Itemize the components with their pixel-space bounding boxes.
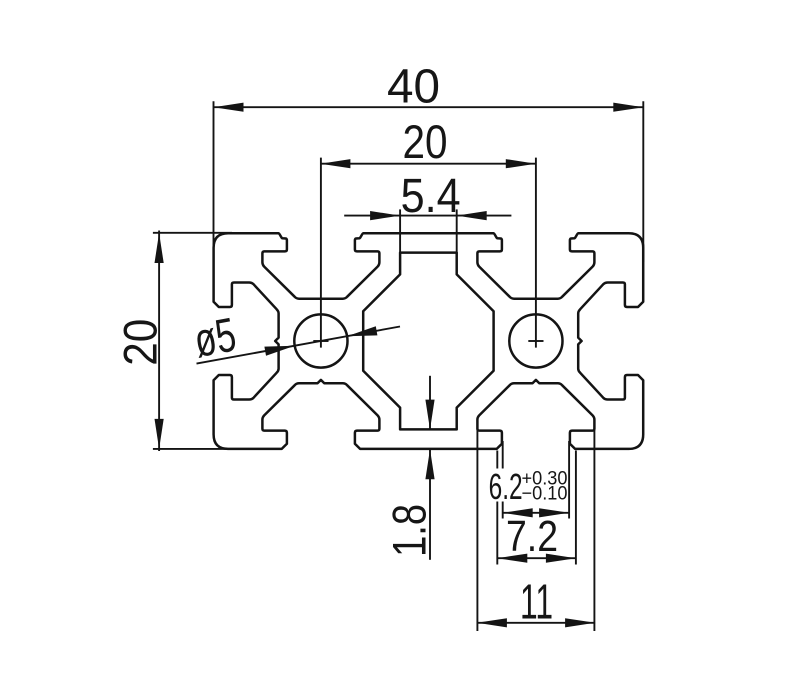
dimension 20 (slot pitch) with centrelines to hole centres xyxy=(313,115,543,348)
left centre hole diameter 5 xyxy=(294,314,347,367)
svg-text:6.2: 6.2 xyxy=(489,466,523,507)
svg-text:40: 40 xyxy=(387,61,440,114)
dimension 6.2 +0.30/-0.10 (slot opening width) xyxy=(489,441,569,519)
svg-text:7.2: 7.2 xyxy=(506,512,558,561)
dimension 7.2 (slot mouth rebate width) xyxy=(497,451,576,565)
dimension 5.4 (centre cavity top width) xyxy=(344,170,511,254)
dimension 11 (slot cavity width) xyxy=(477,428,595,631)
svg-text:20: 20 xyxy=(403,115,448,168)
svg-text:11: 11 xyxy=(520,576,553,630)
central octagonal cavity xyxy=(363,253,493,430)
dimension 40 (overall width) with extension lines xyxy=(214,61,644,263)
dimension diameter 5 leader across left hole xyxy=(190,309,400,368)
svg-text:5.4: 5.4 xyxy=(401,170,461,223)
svg-text:20: 20 xyxy=(113,319,166,366)
dimension 1.8 (bottom wall thickness) xyxy=(382,376,435,560)
dimension 20 (profile height, left side) xyxy=(113,231,232,452)
svg-text:−0.10: −0.10 xyxy=(522,483,568,504)
profile outer contour (20x40 extrusion cross-section with six T-slots) xyxy=(214,233,644,449)
svg-text:1.8: 1.8 xyxy=(382,504,435,557)
right centre hole diameter 5 xyxy=(509,314,562,367)
